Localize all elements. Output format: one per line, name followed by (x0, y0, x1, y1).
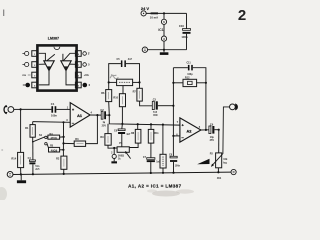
wire R6 top to bias rail (108, 82, 110, 89)
input jack plug (4, 106, 7, 114)
junction R5 (62, 149, 64, 151)
pin 4 box (32, 82, 38, 88)
wire between IC1 pins (163, 24, 165, 36)
wire C2 to node X (106, 114, 109, 116)
pin 8 box (75, 51, 81, 57)
internal wire pin1 to amp A (39, 53, 46, 61)
wire P2 to ground rail (217, 168, 219, 172)
svg-text:C10: C10 (179, 24, 185, 28)
junction power ground (163, 49, 165, 51)
wire R9 top (107, 124, 109, 134)
svg-text:IC1: IC1 (158, 28, 163, 32)
junction feedback column top (62, 121, 64, 123)
wire A1 inverting input line (33, 121, 70, 124)
wire R11 bottom to C7 (150, 143, 152, 158)
junction R13b ground (162, 172, 164, 174)
svg-text:R1: R1 (25, 126, 29, 130)
junction R12 left (172, 82, 174, 84)
pin 2 box (32, 62, 38, 68)
junction R10 rail (121, 123, 123, 125)
scan artifact left edge (3, 10, 4, 17)
capacitor C5 bypass loop (109, 64, 121, 83)
svg-text:R14: R14 (11, 157, 16, 161)
internal wire pin7 stub (69, 63, 76, 65)
wire R2 to ground rail (63, 169, 65, 174)
svg-text:461: 461 (217, 176, 222, 180)
feedback middle wire with R12 (173, 82, 183, 84)
junction supply node (163, 12, 165, 14)
output jack circle (230, 104, 236, 110)
fuse element in supply wire (151, 12, 158, 14)
wire R10 to interstage rail (121, 107, 123, 124)
wire R14 to ground rail (20, 168, 22, 175)
pin 5 box (75, 82, 81, 88)
junction A2 output feedback (205, 129, 207, 131)
internal wire amp A output to pin 4 (39, 71, 49, 85)
pin 5 external dot (83, 83, 88, 88)
wire R7 top (139, 82, 141, 88)
internal wire amp B output to pin 5 (66, 71, 76, 85)
input ground terminal (7, 172, 13, 178)
wire R5 to feedback column (60, 149, 64, 151)
pin 2 external circle (25, 62, 29, 66)
output ground terminal (231, 169, 236, 174)
internal wire vertical to amp B (62, 54, 64, 61)
svg-text:10k: 10k (223, 158, 228, 161)
junction R12 right (205, 82, 207, 84)
pin 7 box (75, 62, 81, 68)
wire R8 bottom to P1 right (129, 143, 138, 147)
svg-text:ms: ms (22, 74, 26, 77)
wire jack to input node (14, 108, 21, 110)
svg-text:25V: 25V (102, 124, 107, 127)
wire supply to junction (146, 12, 186, 14)
switch contact b (45, 143, 47, 145)
wire C9 to output node (214, 129, 219, 131)
wire R1 top (32, 122, 34, 125)
pin 4 external dot (25, 83, 30, 88)
resistor R13b divider (160, 154, 166, 168)
wire R9 bottom to P1 (108, 145, 117, 148)
wire IC1 pin3 to ground rail (163, 41, 165, 50)
junction C3 feedback (172, 105, 174, 107)
wire A2 output (201, 129, 209, 131)
ground symbol power (163, 50, 165, 53)
wire R13b to ground rail (162, 168, 164, 173)
wire input node down to R14 (20, 109, 22, 152)
supply terminal + (141, 11, 146, 16)
pin 7 external circle (83, 63, 87, 67)
wire switch pivot down to C4 (32, 142, 34, 160)
wire contact a to R4 (46, 136, 49, 138)
volume wedge (197, 159, 209, 165)
junction R2 ground (63, 173, 65, 175)
junction P2 ground (217, 171, 219, 173)
wire output node down to P2 (218, 130, 220, 153)
op-amp A1 (70, 103, 90, 128)
wire C8 to ground rail (173, 162, 175, 173)
capacitor C6 above P1 (121, 124, 124, 129)
svg-text:C1: C1 (51, 102, 55, 106)
junction R3 feedback at output (96, 114, 98, 116)
power ground terminal (142, 47, 147, 52)
wire R1 to switch pivot (32, 137, 34, 142)
svg-text:24 V: 24 V (141, 6, 150, 11)
junction bias right (138, 81, 140, 83)
junction A2 inverting node (172, 135, 174, 137)
svg-text:25V: 25V (210, 139, 215, 142)
svg-text:R11: R11 (154, 132, 159, 135)
svg-text:100µ: 100µ (181, 35, 188, 39)
junction node X (108, 114, 110, 116)
switch contact a (45, 136, 47, 138)
junction R14 ground (20, 173, 22, 175)
input jack circle (8, 107, 14, 113)
svg-text:R10: R10 (113, 96, 118, 99)
svg-text:470Ω: 470Ω (50, 136, 56, 140)
svg-text:500Ω: 500Ω (118, 155, 124, 158)
svg-text:A2: A2 (186, 129, 191, 133)
junction input node (20, 108, 22, 110)
op-amp IC U1 package outline (37, 45, 76, 90)
wire R7 bottom to C3 (140, 101, 153, 106)
switch S1 (32, 141, 34, 143)
svg-text:C11: C11 (186, 62, 191, 65)
wire C7 to ground rail (150, 162, 152, 173)
internal op-amp triangle B (61, 61, 71, 71)
internal op-amp triangle A (44, 61, 54, 71)
wire input node to C1 (21, 108, 52, 110)
pin 1 box (32, 51, 38, 57)
svg-text:2: 2 (238, 7, 246, 24)
feedback loop top wire (173, 67, 188, 69)
IC1 supply pin circle 6 (161, 19, 166, 24)
svg-text:A1: A1 (77, 114, 82, 118)
wire R4 to feedback column (60, 136, 64, 138)
bias rail with R13 box (109, 81, 117, 83)
bottom left corner smudge (0, 187, 7, 201)
junction C8 ground (172, 172, 174, 174)
svg-text:A1, A2 = IC1 = LM387: A1, A2 = IC1 = LM387 (128, 184, 181, 189)
pin 1 external circle (25, 51, 29, 55)
wire C4 to ground rail (32, 164, 34, 174)
svg-text:100n: 100n (175, 165, 181, 167)
wire C6 to P1 top (121, 134, 123, 147)
wire C10 down to power ground rail (186, 34, 188, 50)
wire R11 top (150, 124, 152, 129)
junction P1 left (113, 147, 115, 149)
svg-text:+: + (182, 124, 184, 128)
junction C4 ground (32, 173, 34, 175)
junction R4 (63, 136, 65, 138)
op-amp A2 feedback loop left wire (172, 68, 174, 136)
internal wire diagonal to amp A (47, 54, 55, 60)
svg-text:49Ω9: 49Ω9 (51, 148, 58, 152)
svg-text:10 mA: 10 mA (150, 16, 158, 20)
wire feedback to A2 inverting input (173, 135, 180, 137)
wire down to IC1 supply pin (163, 13, 165, 19)
junction R8 rail (137, 123, 139, 125)
ground symbol main left (20, 174, 22, 180)
wire R3 to A1 output node (86, 115, 98, 144)
wire R13b top (162, 125, 164, 155)
internal wire pin2 stub (39, 63, 46, 65)
wire R12 right (197, 82, 206, 84)
svg-text:4n7: 4n7 (128, 58, 133, 61)
wire R8 top (137, 124, 139, 129)
wire C1 to A1 plus input (56, 108, 70, 110)
junction R3 tap (62, 142, 64, 144)
svg-text:100n: 100n (51, 114, 57, 118)
main ground rail (13, 172, 231, 174)
wire C3 to A2 feedback column (158, 105, 174, 107)
handwriting smudge near R13 (110, 75, 118, 79)
svg-text:+Ub: +Ub (84, 73, 90, 77)
feedback column wire (62, 122, 64, 156)
power ground rail (148, 49, 187, 51)
op-amp A2 (180, 118, 201, 142)
output jack plug (236, 104, 238, 110)
faint speck left edge (1, 149, 3, 151)
IC notch (54, 47, 60, 50)
internal wire pin8 diagonal to amp B (64, 53, 76, 60)
pin 8 external circle (83, 52, 87, 56)
svg-text:DIN: DIN (153, 115, 157, 117)
junction C7 ground (150, 172, 152, 174)
junction R13b rail (162, 124, 164, 126)
P2 wiper wire to output jack (213, 107, 230, 165)
pin 6 box (75, 72, 81, 78)
resistor R13 (117, 79, 133, 85)
bottom smudges (152, 191, 180, 197)
junction output node (218, 129, 220, 131)
P1 wiper arrow (126, 153, 130, 159)
wire column to R3 (64, 142, 75, 144)
wire R13 tap down to R10 (122, 86, 124, 94)
wire contact b to R5 (47, 144, 48, 148)
svg-text:+: + (72, 108, 74, 112)
svg-text:log: log (223, 162, 227, 165)
wire A1 output (90, 114, 101, 116)
junction bias left (108, 81, 110, 83)
junction R11 rail (150, 123, 152, 125)
wire supply right corner down to C10 (186, 13, 188, 28)
svg-text:LM387: LM387 (48, 36, 59, 40)
wire A2 inverting column down to C8 (172, 136, 174, 156)
pin 3 box (32, 72, 38, 78)
wire node X up to R6 (108, 102, 111, 116)
wire node X down and interstage rail (109, 115, 180, 125)
IC1 ground pin circle 3 (161, 36, 166, 41)
